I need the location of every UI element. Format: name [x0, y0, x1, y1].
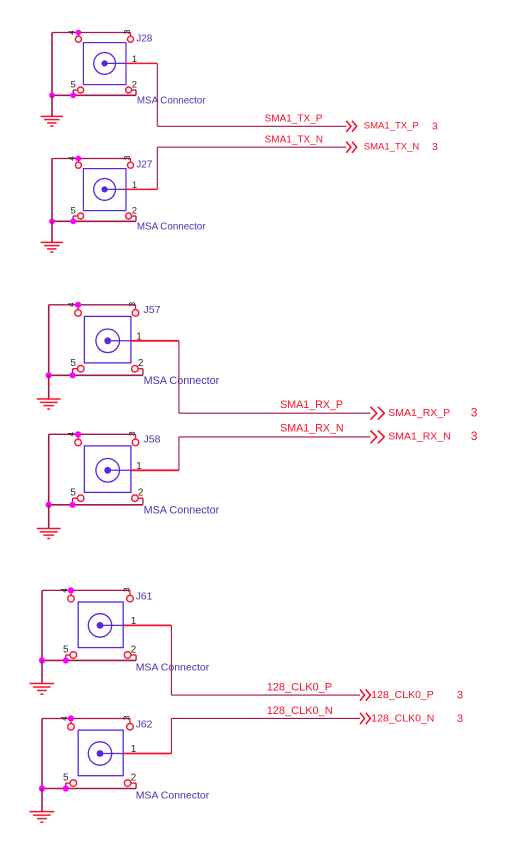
wire pin 5 of J62 to ground bus	[65, 783, 67, 788]
pin number 4 of J61	[59, 588, 69, 593]
svg-text:J58: J58	[144, 434, 161, 446]
svg-text:SMA1_TX_N: SMA1_TX_N	[364, 142, 420, 153]
svg-text:2: 2	[131, 773, 137, 784]
svg-text:3: 3	[122, 155, 132, 160]
svg-text:4: 4	[66, 302, 76, 307]
pin 5 of J28	[73, 87, 83, 93]
svg-text:SMA1_TX_P: SMA1_TX_P	[364, 121, 419, 132]
body coax circle of J58	[96, 459, 120, 483]
junction at pin 5 drop of J62	[63, 785, 69, 791]
connector J27 top ground wire	[52, 158, 131, 160]
svg-text:2: 2	[132, 206, 137, 217]
body coax circle of J28	[94, 53, 116, 75]
body coax circle of J27	[94, 179, 116, 201]
pin number 3 of J61	[122, 587, 132, 592]
svg-text:J61: J61	[136, 591, 153, 602]
svg-text:3: 3	[432, 121, 438, 132]
wire J61 bottom ground bus	[42, 659, 136, 661]
wire net SMA1_RX_P horizontal	[179, 412, 371, 414]
pin 2 of J28	[126, 87, 136, 93]
pin 1 of J27 (center conductor)	[105, 188, 158, 190]
svg-text:128_CLK0_N: 128_CLK0_N	[371, 712, 434, 724]
pin 4 of J57	[75, 305, 82, 316]
pin number 4 of J58	[66, 432, 76, 437]
pin 5 of J61	[66, 652, 77, 659]
off-page connector 128_CLK0_N	[360, 713, 370, 724]
wire pin 5 of J61 to ground bus	[65, 655, 67, 660]
pin 3 of J61	[127, 590, 134, 601]
junction at pin 5 drop of J58	[70, 502, 76, 508]
pin 1 of J28 (center conductor)	[105, 62, 158, 64]
connector J57 top ground wire	[49, 304, 136, 306]
connector J28 top ground wire	[52, 32, 131, 34]
body square of J57	[84, 316, 130, 363]
svg-text:2: 2	[132, 80, 137, 91]
ground symbol of J58	[37, 505, 61, 539]
pin 1 of J57 (center conductor)	[108, 340, 179, 342]
junction at pin 4 of J28	[76, 30, 82, 36]
ground symbol of J28	[41, 95, 63, 126]
svg-text:4: 4	[66, 432, 76, 437]
svg-text:3: 3	[122, 587, 132, 592]
svg-text:3: 3	[471, 429, 478, 443]
svg-text:MSA Connector: MSA Connector	[144, 505, 220, 517]
wire J62 left ground bus	[41, 719, 43, 789]
off-page connector SMA1_RX_P	[370, 407, 384, 420]
pin number 4 of J62	[59, 716, 69, 721]
body square of J61	[78, 602, 123, 648]
pin 2 of J27	[126, 213, 136, 219]
ground symbol of J27	[41, 221, 63, 252]
svg-text:4: 4	[59, 716, 69, 721]
svg-text:SMA1_TX_P: SMA1_TX_P	[265, 114, 323, 125]
wire net SMA1_RX_N horizontal	[179, 436, 371, 438]
svg-text:J62: J62	[136, 720, 153, 731]
junction at pin 4 of J58	[75, 431, 81, 437]
svg-text:1: 1	[131, 744, 137, 755]
wire pin 2 of J57 to ground bus	[142, 369, 144, 376]
junction at pin 5 drop of J61	[63, 657, 69, 663]
svg-text:2: 2	[131, 645, 137, 656]
pin number 3 of J28	[122, 29, 132, 34]
body center dot of J62	[97, 750, 104, 757]
off-page connector 128_CLK0_P	[360, 689, 370, 700]
wire net 128_CLK0_N vertical to pin 1	[170, 718, 172, 753]
wire pin 2 of J27 to ground bus	[135, 216, 137, 221]
pin 1 of J58 (center conductor)	[108, 469, 179, 471]
connector J62 top ground wire	[42, 718, 130, 720]
wire pin 2 of J62 to ground bus	[135, 783, 137, 788]
pin number 4 of J28	[67, 30, 77, 35]
svg-text:4: 4	[67, 156, 77, 161]
junction at pin 4 of J27	[76, 156, 82, 162]
junction ground bus left corner of J58	[46, 502, 52, 508]
body center dot of J57	[104, 337, 111, 344]
svg-text:3: 3	[471, 406, 478, 420]
pin number 3 of J27	[122, 155, 132, 160]
svg-text:MSA Connector: MSA Connector	[136, 662, 210, 674]
svg-text:MSA Connector: MSA Connector	[137, 221, 206, 232]
svg-text:J57: J57	[144, 304, 161, 316]
junction at pin 4 of J61	[68, 587, 74, 593]
off-page connector SMA1_TX_N	[346, 142, 356, 153]
off-page connector SMA1_RX_N	[370, 431, 384, 444]
pin 1 of J61 (center conductor)	[100, 624, 171, 626]
ground symbol of J62	[30, 789, 55, 823]
wire J57 bottom ground bus	[49, 374, 143, 376]
pin 3 of J57	[132, 305, 139, 316]
svg-text:3: 3	[122, 715, 132, 720]
svg-text:4: 4	[67, 30, 77, 35]
wire J58 bottom ground bus	[49, 504, 143, 506]
pin 2 of J61	[124, 652, 136, 659]
ground symbol of J61	[30, 660, 55, 694]
svg-text:5: 5	[70, 358, 76, 369]
svg-text:128_CLK0_N: 128_CLK0_N	[267, 705, 333, 717]
svg-text:J28: J28	[136, 33, 153, 44]
pin 2 of J62	[124, 780, 136, 787]
svg-text:MSA Connector: MSA Connector	[144, 375, 220, 387]
pin 1 of J62 (center conductor)	[100, 753, 171, 755]
svg-text:2: 2	[138, 488, 144, 499]
svg-text:5: 5	[63, 773, 69, 784]
svg-text:1: 1	[132, 54, 137, 65]
wire pin 2 of J28 to ground bus	[135, 90, 137, 95]
pin 2 of J58	[132, 495, 143, 502]
wire J57 left ground bus	[48, 305, 50, 376]
pin number 4 of J27	[67, 156, 77, 161]
pin 3 of J58	[132, 434, 139, 445]
svg-text:128_CLK0_P: 128_CLK0_P	[267, 682, 332, 694]
junction ground bus left corner of J62	[39, 785, 45, 791]
wire net SMA1_RX_N vertical to pin 1	[178, 437, 180, 470]
pin 4 of J27	[75, 159, 81, 169]
svg-text:SMA1_RX_P: SMA1_RX_P	[280, 399, 343, 411]
pin number 3 of J57	[127, 302, 137, 307]
junction ground bus left corner of J61	[39, 657, 45, 663]
pin number 4 of J57	[66, 302, 76, 307]
wire net 128_CLK0_P horizontal	[171, 694, 360, 696]
svg-text:SMA1_RX_N: SMA1_RX_N	[388, 431, 450, 443]
svg-text:1: 1	[131, 616, 137, 627]
ground symbol of J57	[37, 375, 61, 409]
pin 5 of J58	[73, 495, 84, 502]
junction at pin 5 drop of J57	[70, 372, 76, 378]
svg-text:1: 1	[132, 180, 137, 191]
svg-text:J27: J27	[136, 159, 153, 170]
wire pin 5 of J28 to ground bus	[72, 90, 74, 95]
wire net SMA1_RX_P vertical from pin 1	[178, 341, 180, 413]
svg-text:3: 3	[122, 29, 132, 34]
wire net 128_CLK0_P vertical from pin 1	[170, 625, 172, 695]
wire net SMA1_TX_P vertical from pin 1	[156, 63, 158, 126]
body center dot of J27	[102, 186, 108, 192]
svg-text:1: 1	[136, 331, 142, 342]
pin number 3 of J62	[122, 715, 132, 720]
pin 4 of J28	[75, 33, 81, 43]
body center dot of J61	[97, 622, 104, 629]
wire J27 left ground bus	[51, 159, 53, 222]
connector J61 top ground wire	[42, 589, 130, 591]
wire J28 bottom ground bus	[52, 94, 136, 96]
body center dot of J58	[104, 467, 111, 474]
junction at pin 4 of J57	[75, 302, 81, 308]
pin number 3 of J58	[127, 431, 137, 436]
pin 4 of J62	[68, 719, 75, 731]
body square of J58	[84, 446, 130, 493]
svg-text:4: 4	[59, 588, 69, 593]
connector J58 top ground wire	[49, 433, 136, 435]
junction at pin 5 drop of J28	[70, 92, 76, 98]
svg-text:2: 2	[138, 358, 144, 369]
pin 3 of J62	[127, 719, 134, 731]
wire J28 left ground bus	[51, 33, 53, 96]
svg-text:5: 5	[70, 488, 76, 499]
svg-text:MSA Connector: MSA Connector	[136, 790, 210, 802]
body square of J28	[83, 43, 126, 85]
wire pin 2 of J61 to ground bus	[135, 655, 137, 660]
body coax circle of J61	[88, 614, 111, 637]
wire net SMA1_TX_N vertical to pin 1	[156, 147, 158, 189]
pin 5 of J62	[66, 780, 77, 787]
svg-text:5: 5	[70, 80, 75, 91]
body square of J27	[83, 169, 126, 211]
pin 5 of J57	[73, 365, 84, 372]
svg-text:1: 1	[136, 461, 142, 472]
wire pin 5 of J58 to ground bus	[72, 498, 74, 505]
wire J27 bottom ground bus	[52, 220, 136, 222]
wire pin 5 of J57 to ground bus	[72, 369, 74, 376]
svg-text:3: 3	[127, 431, 137, 436]
junction ground bus left corner of J57	[46, 372, 52, 378]
wire J58 left ground bus	[48, 434, 50, 505]
wire net SMA1_TX_P horizontal	[157, 125, 346, 127]
wire net 128_CLK0_N horizontal	[171, 717, 360, 719]
wire pin 5 of J27 to ground bus	[72, 216, 74, 221]
pin 3 of J28	[128, 33, 134, 43]
off-page connector SMA1_TX_P	[346, 121, 356, 132]
body center dot of J28	[102, 60, 108, 66]
wire net SMA1_TX_N horizontal	[157, 146, 346, 148]
wire J62 bottom ground bus	[42, 788, 136, 790]
pin 3 of J27	[128, 159, 134, 169]
junction at pin 5 drop of J27	[70, 218, 76, 224]
svg-text:3: 3	[457, 713, 463, 725]
wire pin 2 of J58 to ground bus	[142, 498, 144, 505]
svg-text:5: 5	[70, 206, 75, 217]
svg-text:SMA1_TX_N: SMA1_TX_N	[265, 134, 323, 145]
pin 2 of J57	[132, 365, 143, 372]
svg-text:3: 3	[457, 690, 463, 702]
pin 5 of J27	[73, 213, 83, 219]
svg-text:SMA1_RX_P: SMA1_RX_P	[388, 407, 450, 419]
body coax circle of J57	[96, 329, 120, 353]
junction at pin 4 of J62	[68, 715, 74, 721]
svg-text:SMA1_RX_N: SMA1_RX_N	[280, 423, 344, 435]
svg-text:128_CLK0_P: 128_CLK0_P	[371, 689, 433, 701]
svg-text:3: 3	[127, 302, 137, 307]
junction ground bus left corner of J28	[49, 92, 55, 98]
junction ground bus left corner of J27	[49, 218, 55, 224]
body coax circle of J62	[88, 742, 111, 765]
svg-text:5: 5	[63, 645, 69, 656]
pin 4 of J58	[75, 434, 82, 445]
svg-text:MSA Connector: MSA Connector	[137, 95, 206, 106]
pin 4 of J61	[68, 590, 75, 601]
body square of J62	[78, 730, 123, 776]
wire J61 left ground bus	[41, 590, 43, 660]
svg-text:3: 3	[432, 142, 438, 153]
